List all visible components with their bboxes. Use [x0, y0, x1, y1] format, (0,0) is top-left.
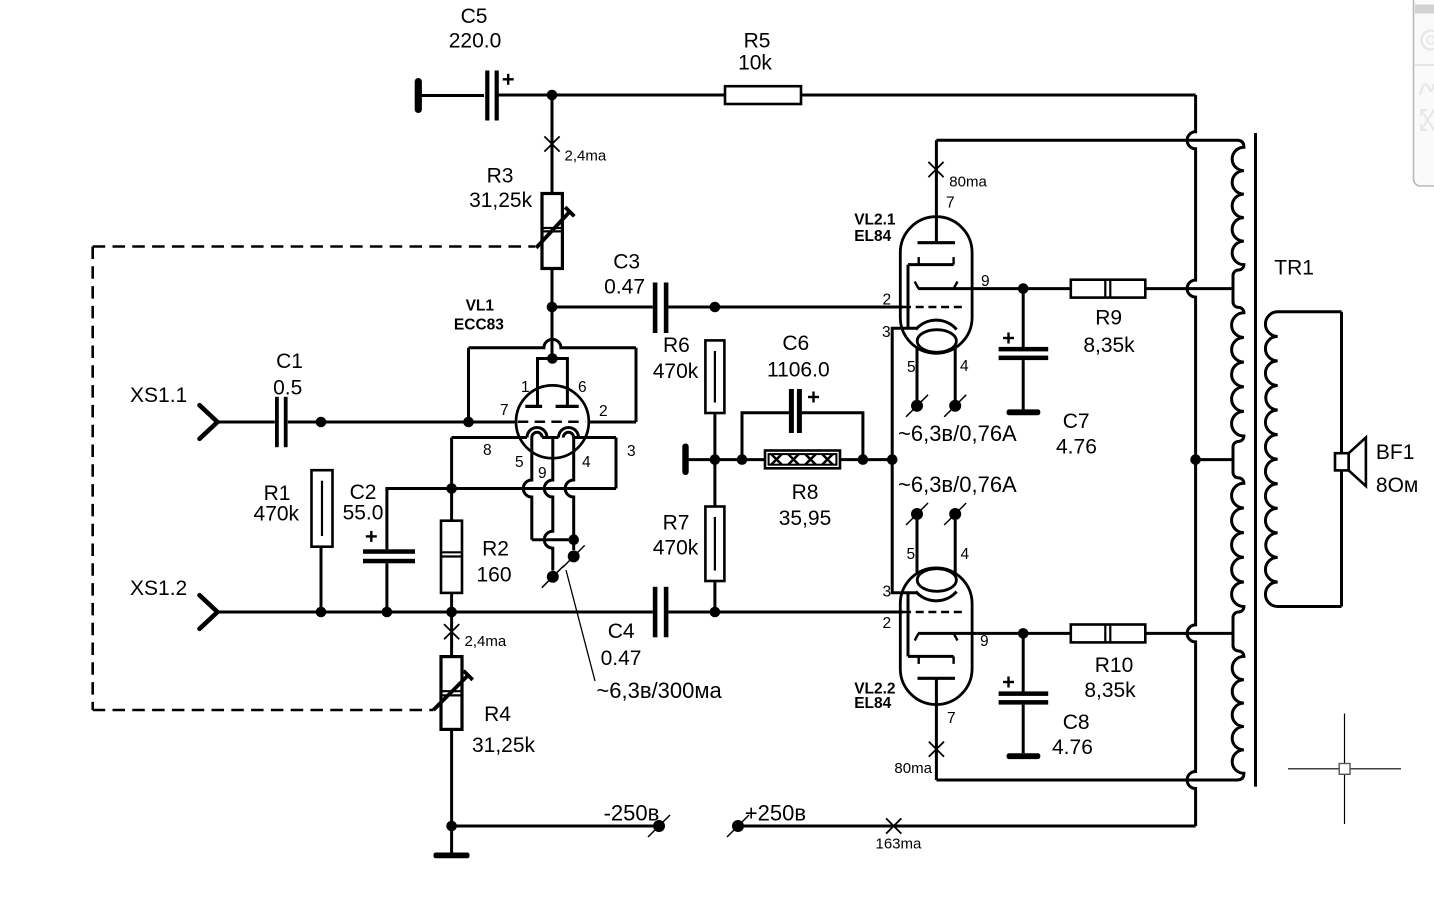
wire R4 to ground node [450, 729, 453, 826]
wire R3 to node [551, 269, 554, 308]
label -250в [604, 801, 660, 826]
node VL2 cathodes on bus [887, 454, 898, 465]
svg-text:~6,3в/300ма: ~6,3в/300ма [596, 678, 722, 703]
wire R2 to XS1.2 line [450, 593, 453, 612]
capacitor C5 [485, 71, 499, 121]
wire secondary to speaker (top) [1340, 312, 1343, 453]
label R2 [476, 538, 511, 587]
VL2.2 anode bar [918, 677, 956, 680]
svg-text:XS1.1: XS1.1 [130, 384, 187, 407]
resistor R1 [312, 470, 333, 547]
trimmer resistor R4 [441, 657, 462, 730]
VL2.2 heater loop [917, 569, 956, 592]
svg-text:3: 3 [627, 443, 636, 460]
VL2.1 control grid (dashed) [903, 306, 964, 308]
label R9 [1083, 307, 1135, 358]
svg-text:C7: C7 [1063, 410, 1090, 433]
label TR1 [1274, 256, 1314, 279]
label R6 [653, 334, 699, 383]
svg-text:R1: R1 [264, 482, 291, 505]
label C8 [1052, 711, 1093, 759]
pin 2 label VL2.2 [883, 615, 892, 632]
svg-text:C6: C6 [782, 332, 809, 355]
wire VL2.2 anode to transformer [936, 779, 1237, 782]
svg-text:5: 5 [515, 454, 524, 471]
pin 5 label VL1 [515, 454, 524, 471]
VL1 grid (dashed) [518, 421, 585, 424]
svg-text:0.47: 0.47 [604, 276, 645, 299]
VL2.1 cathode arc [916, 320, 957, 329]
transformer TR1 secondary winding [1265, 312, 1341, 607]
VL2.1 cathode line to pin 9 [915, 282, 1071, 289]
pin 5 label VL2.1 [907, 359, 916, 376]
wire R3 node to C3 [552, 306, 653, 309]
tube VL1 label [454, 298, 504, 334]
label XS1.1 [130, 384, 187, 407]
current X mark 2,4ma (bottom) [444, 624, 459, 639]
current X mark 2,4ma (top) [544, 136, 559, 151]
capacitor C8 [999, 691, 1049, 704]
VL1 heater arcs [527, 428, 579, 438]
label ~6,3в/0,76A (lower) [898, 472, 1017, 497]
node cathode/R2/C2 [446, 483, 457, 494]
svg-text:7: 7 [500, 402, 509, 419]
svg-text:0.5: 0.5 [273, 377, 302, 400]
svg-text:2,4ma: 2,4ma [565, 148, 607, 165]
label C1 [273, 350, 303, 400]
capacitor C4 [653, 587, 669, 638]
label 2,4ma (bottom) [465, 633, 507, 650]
resistor R6 [705, 340, 724, 413]
resistor R8 (fusible) [765, 451, 840, 469]
pin 4 label VL1 [582, 454, 591, 471]
svg-text:ECC83: ECC83 [454, 316, 504, 333]
wire +250v [738, 825, 1196, 828]
svg-text:4: 4 [582, 454, 591, 471]
VL2.1 anode bar [918, 241, 956, 244]
svg-text:7: 7 [946, 195, 955, 212]
label XS1.2 [130, 577, 187, 600]
wire C5 to R5 [499, 94, 726, 97]
current X mark 80ma (bottom) [929, 742, 944, 757]
pin 7 label VL2.2 [947, 710, 956, 727]
terminal dot +250v [727, 815, 749, 837]
heater terminal dot A VL1 [563, 545, 585, 567]
svg-text:-250в: -250в [604, 801, 660, 826]
wire VL2.1 anode pin 7 [935, 140, 938, 242]
pin 3 label VL2.2 [883, 584, 892, 601]
wire R7 to XS1.2 line [713, 581, 716, 612]
wire node to R2 [450, 489, 453, 521]
VL1 cathode box sides [452, 438, 616, 489]
wire R6 to bus [713, 413, 716, 460]
svg-text:~6,3в/0,76A: ~6,3в/0,76A [898, 472, 1017, 497]
wire R9 to transformer tap [1145, 287, 1233, 290]
wire VL2.1 anode to transformer [936, 139, 1237, 142]
VL1 envelope [516, 385, 589, 458]
VL2.2 envelope [900, 568, 972, 705]
pin 5 label VL2.2 [907, 546, 916, 563]
ground [434, 853, 470, 859]
node C4/R7 [710, 607, 721, 618]
svg-text:R7: R7 [663, 511, 690, 534]
heater lead pin 4 VL1 [565, 438, 574, 540]
feedback dashed wire (top, to R3 wiper) [93, 245, 536, 248]
svg-text:TR1: TR1 [1274, 256, 1314, 279]
VL2.1 heater pin 5 [916, 347, 919, 400]
svg-text:R6: R6 [663, 334, 690, 357]
wire VL2.2 anode pin 7 [935, 678, 938, 780]
wire C7 bottom [1022, 360, 1025, 409]
tube VL2.2 label [854, 681, 895, 713]
VL1 top grid box (pins 7-2) [469, 339, 637, 422]
wire C2 bottom [385, 563, 388, 612]
svg-text:C3: C3 [613, 251, 640, 274]
svg-text:5: 5 [907, 359, 916, 376]
heater terminal dot VL2.1 pin 4 [944, 395, 966, 417]
node B+ to primary centre tap [1190, 454, 1201, 465]
wire R10 to transformer tap [1145, 632, 1233, 635]
svg-text:C1: C1 [276, 350, 303, 373]
label ~6,3в/300ма [596, 678, 722, 703]
svg-text:220.0: 220.0 [449, 30, 502, 53]
svg-text:9: 9 [538, 465, 547, 482]
VL2.2 control grid (dashed) [903, 611, 964, 613]
label BF1 [1376, 441, 1418, 497]
svg-text:3: 3 [883, 584, 892, 601]
heater terminal dot VL2.2 pin 5 [906, 503, 928, 525]
polarity + of C2 [366, 531, 377, 542]
svg-text:+250в: +250в [745, 801, 806, 826]
wire to ground [450, 826, 453, 853]
wire C2 top to cathode node [387, 489, 452, 550]
node C2 bottom [382, 607, 393, 618]
wire C3 to VL2.1 grid [668, 306, 903, 309]
heater bus wire (right) [840, 458, 892, 461]
svg-text:1: 1 [521, 379, 530, 396]
label R1 [254, 482, 300, 526]
label R10 [1084, 654, 1136, 702]
svg-text:4: 4 [961, 546, 970, 563]
label R5 [738, 30, 772, 75]
svg-text:EL84: EL84 [854, 228, 891, 245]
pin 6 label VL1 [578, 379, 587, 396]
pin 9 label VL2.1 [981, 273, 990, 290]
svg-text:470k: 470k [254, 503, 300, 526]
trimmer arrow of R3 [536, 207, 574, 248]
VL1 anode structure [525, 353, 578, 406]
svg-text:80ma: 80ma [949, 173, 987, 190]
capacitor C7 [999, 347, 1049, 360]
transformer TR1 primary winding [1232, 140, 1244, 780]
wire node to R3 [551, 94, 554, 193]
svg-text:4.76: 4.76 [1056, 436, 1097, 459]
polarity + of C8 [1003, 677, 1014, 688]
wire terminal to C5 [422, 94, 485, 97]
wire XS1.2 bus [218, 611, 653, 614]
label C4 [601, 620, 642, 670]
node R6/R7 on heater bus [710, 454, 721, 465]
heater bus terminal bar [682, 444, 688, 476]
capacitor C3 [653, 283, 669, 334]
svg-text:4: 4 [960, 358, 969, 375]
node C1/R1 [316, 417, 327, 428]
svg-text:1106.0: 1106.0 [767, 359, 830, 382]
node heater pins 5/4 VL1 [568, 534, 579, 545]
wire node down to VL1 anodes [551, 307, 554, 359]
wire XS1.1 to C1 [218, 421, 275, 424]
label C2 [343, 481, 384, 524]
label R8 [779, 481, 832, 530]
pin 9 label VL1 [538, 465, 547, 482]
speaker BF1 [1335, 438, 1366, 487]
svg-text:10k: 10k [738, 52, 772, 75]
VL1 cathode box bottom wire [452, 487, 616, 490]
label +250в [745, 801, 806, 826]
heater terminal dot VL2.1 pin 5 [906, 395, 928, 417]
node R3/C3 [547, 302, 558, 313]
B+ rail vertical [1187, 95, 1195, 826]
svg-text:R10: R10 [1095, 654, 1134, 677]
VL2.2 cathode arc [916, 592, 957, 601]
VL2.2 cathode line to pin 9 [915, 633, 1071, 640]
svg-text:31,25k: 31,25k [472, 734, 536, 757]
connector XS1.1 [200, 405, 218, 439]
label C5 [449, 5, 502, 53]
wire XS1.2 node to R4 [450, 612, 453, 657]
node R1 bottom [316, 607, 327, 618]
pin 3 label VL2.1 [882, 324, 891, 341]
pin 3 label VL1 [627, 443, 636, 460]
svg-text:470k: 470k [653, 537, 699, 560]
heater lead pin 5 VL1 [523, 438, 532, 540]
VL2.2 screen grid structure [908, 593, 954, 664]
wire to heater terminal VL1 [572, 540, 575, 550]
svg-text:R5: R5 [744, 30, 771, 53]
current X mark 80ma (top) [928, 162, 943, 177]
wire bus to R7 [713, 460, 716, 507]
label 80ma (top) [949, 173, 987, 190]
VL2.2 heater pin 5 [916, 520, 919, 574]
wire C1 to VL1 grid pin 7 [288, 421, 516, 424]
tube VL2.1 label [854, 212, 896, 246]
node R4/-250/ground [446, 821, 457, 832]
power terminal bar (C5 input) [415, 78, 422, 113]
svg-text:2,4ma: 2,4ma [465, 633, 507, 650]
svg-text:31,25k: 31,25k [469, 189, 533, 212]
svg-text:163ma: 163ma [876, 836, 923, 853]
VL2.1 heater pin 4 [954, 347, 957, 400]
current X mark 163ma [886, 818, 901, 833]
wire C6 left lead [742, 413, 789, 460]
pin 2 label VL1 [599, 403, 608, 420]
polarity + of C5 [503, 74, 514, 85]
label R7 [653, 511, 699, 559]
wire C4 to VL2.2 grid [668, 611, 903, 614]
capacitor C1 [275, 397, 288, 447]
svg-text:C8: C8 [1063, 711, 1090, 734]
svg-text:C5: C5 [461, 5, 488, 28]
label C6 [767, 332, 830, 382]
transformer TR1 core [1254, 133, 1257, 787]
VL2.1 screen grid structure [908, 257, 954, 328]
svg-text:EL84: EL84 [854, 695, 891, 712]
pin 2 label VL2.1 [883, 292, 892, 309]
label R3 [469, 165, 533, 213]
svg-text:4.76: 4.76 [1052, 736, 1093, 759]
svg-text:8: 8 [483, 442, 492, 459]
wire C6 right lead [802, 413, 863, 460]
resistor R7 [705, 507, 724, 582]
svg-text:80ma: 80ma [894, 760, 932, 777]
pin 8 label VL1 [483, 442, 492, 459]
node C6 right lead [858, 454, 869, 465]
wire C8 top [1022, 633, 1025, 691]
C7 common terminal bar [1007, 409, 1041, 415]
node R2 bottom [446, 607, 457, 618]
svg-text:35,95: 35,95 [779, 507, 832, 530]
polarity + of C7 [1003, 333, 1014, 344]
wire VL2.2 pin 3 to bus [892, 460, 917, 593]
polarity + of C6 [808, 392, 819, 403]
pin 4 label VL2.1 [960, 358, 969, 375]
feedback dashed wire (bottom, to R4 wiper) [93, 709, 434, 712]
terminal dot -250v [648, 815, 670, 837]
label C3 [604, 251, 645, 299]
svg-text:6: 6 [578, 379, 587, 396]
pin 9 label VL2.2 [980, 633, 989, 650]
svg-text:R4: R4 [484, 703, 511, 726]
svg-text:R2: R2 [482, 538, 509, 561]
svg-text:2: 2 [883, 615, 892, 632]
resistor R10 [1071, 625, 1146, 643]
svg-text:9: 9 [980, 633, 989, 650]
svg-text:8Ом: 8Ом [1376, 474, 1418, 497]
heater terminal dot VL2.2 pin 4 [944, 503, 966, 525]
svg-text:C4: C4 [608, 620, 635, 643]
svg-text:VL2.1: VL2.1 [854, 212, 896, 229]
label C7 [1056, 410, 1097, 459]
svg-text:~6,3в/0,76A: ~6,3в/0,76A [898, 421, 1017, 446]
svg-text:2: 2 [599, 403, 608, 420]
svg-text:55.0: 55.0 [343, 501, 384, 524]
wire R1 to XS1.2 line [320, 547, 323, 612]
svg-text:R3: R3 [487, 165, 514, 188]
wire -250v [452, 825, 659, 828]
resistor R5 [725, 86, 801, 104]
pin 4 label VL2.2 [961, 546, 970, 563]
node XS1.1 wire / top box [463, 417, 474, 428]
svg-text:XS1.2: XS1.2 [130, 577, 187, 600]
trimmer resistor R3 [542, 194, 562, 269]
VL2.2 heater pin 4 [954, 520, 957, 574]
cursor crosshair [1288, 714, 1401, 825]
label 80ma (bottom) [894, 760, 932, 777]
node C3/R6 [710, 302, 721, 313]
svg-text:2: 2 [883, 292, 892, 309]
pin 1 label VL1 [521, 379, 530, 396]
svg-text:0.47: 0.47 [601, 647, 642, 670]
label ~6,3в/0,76A (upper) [898, 421, 1017, 446]
wire centre tap [1196, 458, 1233, 461]
svg-text:470k: 470k [653, 360, 699, 383]
heater bus wire (left) [688, 458, 765, 461]
svg-text:160: 160 [476, 564, 511, 587]
wire C8 bottom [1022, 705, 1025, 754]
node C6 left lead [737, 454, 748, 465]
svg-text:R8: R8 [792, 481, 819, 504]
svg-text:8,35k: 8,35k [1084, 679, 1136, 702]
heater connector wire VL1 [532, 538, 574, 541]
label R4 [472, 703, 536, 757]
pin 7 label VL1 [500, 402, 509, 419]
wire speaker to secondary (bottom) [1340, 470, 1343, 606]
pin 7 label VL2.1 [946, 195, 955, 212]
resistor R9 [1071, 280, 1146, 298]
svg-text:3: 3 [882, 324, 891, 341]
resistor R2 [441, 521, 462, 593]
svg-text:9: 9 [981, 273, 990, 290]
svg-text:R9: R9 [1095, 307, 1122, 330]
svg-text:7: 7 [947, 710, 956, 727]
heater terminal dot B VL1 [542, 566, 564, 588]
feedback dashed wire (left side) [91, 247, 94, 711]
C8 common terminal bar [1007, 753, 1041, 759]
label 163ma [876, 836, 923, 853]
VL2.1 envelope [900, 217, 972, 354]
node C8/R10 [1018, 628, 1029, 639]
trimmer arrow of R4 [433, 671, 472, 710]
label 2,4ma (top) [565, 148, 607, 165]
node C7/R9 [1018, 283, 1029, 294]
VL1 cathode wire segments [452, 436, 616, 439]
svg-text:BF1: BF1 [1376, 441, 1415, 464]
VL2.1 heater loop [917, 330, 956, 353]
svg-text:5: 5 [907, 546, 916, 563]
svg-text:VL1: VL1 [466, 298, 495, 315]
wire R5 to B+ rail corner [801, 94, 1196, 97]
wire C7 top [1022, 289, 1025, 347]
wire VL2.1 pin 3 to bus [892, 328, 917, 459]
svg-text:8,35k: 8,35k [1083, 334, 1135, 357]
capacitor C2 [363, 549, 415, 563]
node C5/R3/R5 [547, 90, 558, 101]
heater lead pin 9 VL1 [544, 438, 553, 571]
capacitor C6 [789, 389, 802, 433]
UI toolbar fragment [1414, 0, 1434, 186]
connector XS1.2 [200, 595, 218, 629]
callout line to heater label [566, 570, 595, 681]
